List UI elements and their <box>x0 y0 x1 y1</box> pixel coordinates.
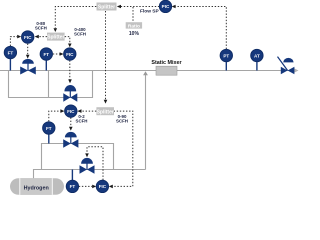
svg-text:PT: PT <box>223 53 229 58</box>
ratio block <box>126 22 142 37</box>
svg-text:Hydrogen: Hydrogen <box>24 185 49 191</box>
valve V2 <box>63 85 77 102</box>
svg-text:SCFH: SCFH <box>35 26 47 31</box>
wire injection riser into main pipe <box>145 75 147 170</box>
splitter S3 <box>47 33 65 41</box>
wire signal FT4 to FIC4 <box>79 185 96 189</box>
instrument FIC1 <box>22 31 34 43</box>
wire signal FIC2 to valve2 <box>68 60 72 83</box>
wire pipe end arrow <box>294 68 299 72</box>
svg-text:Splitter: Splitter <box>97 109 114 115</box>
wire PT stem <box>225 61 227 71</box>
svg-text:FIC: FIC <box>24 35 32 40</box>
valve V1 <box>20 59 36 75</box>
svg-text:FIC: FIC <box>66 52 74 57</box>
wire signal splitter1 to splitter3 <box>54 7 97 33</box>
wire main process pipe <box>0 70 294 72</box>
wire FT4 stem <box>71 170 73 181</box>
svg-text:FT: FT <box>46 126 52 131</box>
wire AT stem <box>256 61 258 71</box>
valve V5 outlet <box>278 57 295 75</box>
instrument FT3 <box>43 122 55 134</box>
svg-text:FT: FT <box>70 184 76 189</box>
wire signal PT to PIC <box>172 5 227 49</box>
instrument FT2 <box>40 48 52 60</box>
wire signal ratio tap <box>132 7 134 22</box>
instrument FIC2 <box>64 48 76 60</box>
svg-text:10%: 10% <box>129 31 140 37</box>
wire FT1 stem <box>9 58 11 71</box>
wire bypass loop verticals and bottom (valve 2 branch) <box>9 71 93 98</box>
svg-text:SCFH: SCFH <box>76 119 88 124</box>
static mixer <box>156 66 177 75</box>
instrument FIC3 <box>65 105 77 117</box>
svg-text:Splitter: Splitter <box>98 5 115 11</box>
instrument AT <box>251 49 263 61</box>
instrument FT4 <box>66 180 78 192</box>
wire bottom supply pipe (valve 4 branch) <box>34 170 146 179</box>
wire signal PIC to splitter1 <box>117 5 160 9</box>
svg-text:Static Mixer: Static Mixer <box>151 60 182 66</box>
wire signal FIC4 to valve4 <box>85 147 103 180</box>
wire signal splitter4 to FIC4 <box>109 111 133 188</box>
wire FT3 stem <box>48 134 50 144</box>
wire FT2 stem <box>45 60 47 71</box>
svg-text:FT: FT <box>8 50 14 55</box>
instrument FT1 <box>4 46 16 58</box>
wire signal FT2 to FIC2 <box>53 52 64 56</box>
wire signal FT3 to FIC3 <box>49 109 65 121</box>
svg-text:SCFH: SCFH <box>116 119 128 124</box>
svg-text:FIC: FIC <box>67 109 75 114</box>
instrument PIC <box>159 0 171 12</box>
hydrogen supply tank <box>10 178 64 195</box>
wire riser arrow <box>143 71 148 75</box>
wire signal splitter3 to FIC2 <box>65 37 72 48</box>
svg-text:AT: AT <box>254 53 260 58</box>
wire signal splitter3 to FIC1 <box>35 35 47 39</box>
svg-text:Splitter: Splitter <box>47 35 64 41</box>
svg-text:Ratio: Ratio <box>128 23 140 29</box>
valve V3 <box>63 132 78 148</box>
wire signal FT1 to FIC1 <box>10 35 21 46</box>
wire signal FIC3 to valve3 <box>69 118 73 131</box>
instrument FIC4 <box>96 180 108 192</box>
wire signal splitter1 to splitter4 <box>104 11 108 104</box>
svg-text:FT: FT <box>43 52 49 57</box>
svg-text:PIC: PIC <box>162 4 170 9</box>
splitter S4 <box>96 107 114 115</box>
wire signal FIC1 to valve1 <box>26 44 30 59</box>
splitter S1 <box>97 3 117 11</box>
wire signal splitter4 to FIC3 <box>77 109 96 113</box>
instrument PT <box>220 49 232 61</box>
svg-text:SCFH: SCFH <box>74 32 86 37</box>
valve V4 <box>80 158 95 174</box>
svg-text:FIC: FIC <box>99 184 107 189</box>
svg-text:Flow SP: Flow SP <box>140 8 159 14</box>
wire lower branch rectangle (valve 3 branch) <box>42 144 114 170</box>
